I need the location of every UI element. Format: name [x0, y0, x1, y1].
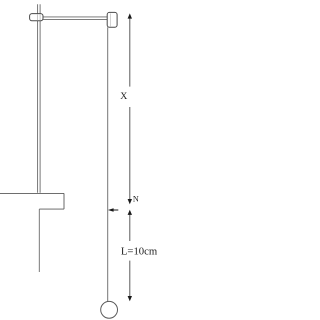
boss clamp left	[30, 14, 43, 21]
svg-text:L=10cm: L=10cm	[121, 246, 158, 258]
pointer arrow to nail on string	[108, 208, 118, 212]
bench top surface	[0, 192, 64, 194]
bench right edge	[63, 193, 65, 209]
bench leg	[38, 209, 40, 272]
dimension X lower shaft with down arrowhead	[128, 107, 132, 204]
string	[107, 27, 109, 302]
svg-text:N: N	[133, 195, 139, 204]
dimension X upper shaft with up arrowhead	[128, 13, 132, 86]
bench underside	[39, 208, 64, 210]
string clamp right	[107, 12, 117, 27]
pendulum bob	[101, 301, 118, 318]
horizontal rod	[43, 17, 108, 20]
svg-text:X: X	[120, 91, 127, 102]
dimension L lower shaft with down arrowhead	[128, 261, 132, 302]
stand vertical rod	[38, 4, 41, 193]
dimension L upper shaft with up arrowhead	[128, 210, 132, 241]
